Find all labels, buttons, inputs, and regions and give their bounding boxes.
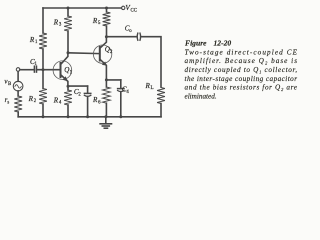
junction rail R4 (67, 115, 70, 118)
resistor R5 label (92, 17, 101, 26)
capacitor C4 (118, 80, 124, 117)
source vB label (4, 78, 11, 87)
wire output node to Co (106, 36, 136, 38)
wire input to C1 (20, 69, 34, 71)
svg-text:1: 1 (35, 40, 38, 45)
svg-text:o: o (129, 29, 132, 34)
svg-text:R: R (92, 17, 98, 25)
junction rail R2 (42, 115, 45, 118)
resistor R2 label (28, 95, 37, 104)
svg-text:Two-stage direct-coupled CE: Two-stage direct-coupled CE (185, 48, 298, 56)
wire C1 to Q1 base (37, 69, 60, 71)
capacitor Co label (125, 25, 133, 34)
junction Q2 collector output node (105, 35, 108, 38)
junction rail R6 ground (104, 115, 107, 118)
resistor R1 (39, 8, 47, 70)
transistor Q1 (53, 53, 72, 86)
svg-text:eliminated.: eliminated. (185, 92, 217, 100)
node VCC label (125, 4, 137, 13)
svg-text:2: 2 (110, 50, 113, 55)
svg-text:R: R (53, 96, 59, 104)
resistor R2 (39, 70, 47, 117)
svg-text:directly coupled to Q₁ collect: directly coupled to Q₁ collector, (185, 66, 298, 74)
svg-text:4: 4 (59, 101, 62, 106)
svg-text:2: 2 (34, 99, 37, 104)
svg-text:12-20: 12-20 (214, 39, 232, 48)
wire top supply rail (43, 7, 122, 9)
svg-text:R: R (53, 18, 59, 26)
junction rail C2 (86, 115, 89, 118)
caption Figure 12-20 (185, 39, 298, 101)
svg-text:6: 6 (98, 100, 101, 105)
svg-text:s: s (7, 100, 9, 105)
wire emitter node to C4 (106, 79, 120, 81)
capacitor C1 (34, 66, 36, 72)
junction top rail R3 (67, 7, 70, 10)
capacitor Co (137, 33, 140, 40)
resistor R4 label (53, 96, 62, 105)
wire interstage Q1 collector to Q2 base (68, 52, 99, 55)
capacitor C4 label (122, 85, 129, 94)
resistor R3 (64, 8, 72, 53)
svg-text:2: 2 (78, 92, 81, 97)
transistor Q2 label (105, 45, 113, 54)
capacitor C1 label (30, 58, 38, 67)
wire Co to RL (141, 37, 161, 87)
svg-text:L: L (151, 86, 154, 91)
transistor Q2 (93, 37, 111, 80)
terminal VCC (122, 6, 125, 9)
junction Q1 collector node (67, 51, 70, 54)
resistor RL (157, 88, 165, 117)
svg-text:3: 3 (59, 23, 62, 28)
svg-text:5: 5 (98, 21, 101, 26)
svg-text:the inter-stage coupling capac: the inter-stage coupling capacitor (185, 75, 298, 83)
junction base node (42, 68, 45, 71)
svg-text:CC: CC (131, 8, 137, 13)
resistor R6 label (92, 96, 101, 105)
svg-text:Figure: Figure (185, 39, 207, 48)
svg-text:R: R (29, 36, 35, 44)
svg-text:R: R (28, 95, 34, 103)
wire bottom ground rail (18, 116, 161, 118)
resistor R5 (103, 8, 111, 37)
svg-text:R: R (92, 96, 98, 104)
ground (100, 117, 111, 128)
svg-text:amplifier. Because Q₂ base is: amplifier. Because Q₂ base is (185, 57, 298, 65)
resistor rs (14, 91, 22, 117)
resistor rs label (5, 96, 10, 105)
junction top rail R5 (105, 7, 108, 10)
terminal input (16, 68, 20, 72)
resistor R4 (64, 86, 72, 117)
svg-text:4: 4 (126, 90, 129, 95)
transistor Q1 label (64, 66, 72, 75)
junction Q1 emitter node (67, 85, 70, 88)
svg-text:B: B (8, 82, 11, 87)
capacitor C2 (84, 86, 90, 117)
svg-text:and the bias resistors for Q₂: and the bias resistors for Q₂ are (185, 84, 298, 92)
resistor R6 (103, 80, 111, 117)
capacitor C2 label (74, 88, 82, 97)
resistor R3 label (53, 18, 62, 27)
svg-text:1: 1 (70, 70, 73, 75)
wire emitter node to C2 (68, 85, 88, 87)
source vB (13, 71, 23, 91)
junction rail C4 (119, 115, 122, 118)
junction Q2 emitter node (105, 78, 108, 81)
resistor R1 label (29, 36, 38, 45)
resistor RL label (145, 82, 154, 91)
